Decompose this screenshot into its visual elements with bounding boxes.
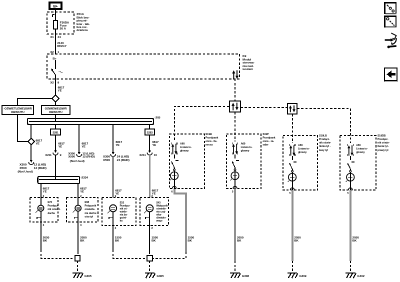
connector X211 pin 10: [147, 150, 152, 197]
wire crossref box2 to bus: [55, 115, 57, 122]
splice square mid cluster: [147, 256, 152, 261]
dashed wire to ground G402: [349, 261, 351, 272]
splice box S281: [51, 129, 61, 135]
svg-text:Przedpank: Przedpank: [263, 136, 276, 140]
svg-text:oświetle-: oświetle-: [85, 207, 96, 211]
svg-text:G305: G305: [157, 274, 165, 278]
pins X2 / 1: [50, 50, 59, 54]
svg-text:Listwa to-: Listwa to-: [356, 146, 368, 150]
ground G308: [230, 273, 249, 278]
label 6817 YE tap C: [82, 141, 89, 148]
svg-text:nik oświet-: nik oświet-: [48, 207, 61, 211]
wire 2050 BK left: [40, 222, 42, 250]
svg-text:Listwa to-: Listwa to-: [241, 145, 253, 149]
label 6817 YE bus2 left: [43, 186, 50, 193]
label E08: [85, 200, 97, 218]
connector bump S19B exit: [172, 186, 176, 188]
label A60 inside S19P: [241, 141, 253, 152]
label A60 inside S19B: [180, 141, 192, 152]
module S19LB dashed box: [283, 136, 318, 191]
ground G305 mid: [145, 273, 164, 278]
label 6817 YE above S43: [152, 189, 159, 196]
svg-text:ośna - tle-: ośna - tle-: [206, 139, 218, 143]
svg-text:YE: YE: [152, 143, 156, 147]
svg-text:E08: E08: [85, 200, 90, 204]
svg-text:YE: YE: [43, 189, 47, 193]
svg-text:Listwa to-: Listwa to-: [298, 146, 310, 150]
wire branch to left crossref: [18, 98, 53, 105]
svg-text:G308: G308: [242, 274, 250, 278]
bus tap wire B (main feed down): [55, 125, 57, 151]
module S19DB internals: [346, 144, 355, 190]
wire 1550 BK from E52: [112, 226, 114, 251]
connector X300 X500 tap C (not used): [77, 152, 82, 157]
label 6817 YE bus2 right: [80, 186, 87, 193]
svg-text:B+: B+: [53, 5, 58, 9]
bus tap wire D: [112, 125, 114, 152]
pins X2 / 9: [50, 80, 59, 84]
ground G309: [287, 273, 306, 278]
fuse block X51A dashed box: [47, 12, 74, 34]
dashed wire C1 to module S19P: [234, 112, 236, 142]
svg-text:-205: -205: [155, 116, 161, 120]
label X51A Blok bezpiecznikow: [77, 12, 91, 32]
svg-text:YE: YE: [116, 143, 120, 147]
svg-text:prawy tyl: prawy tyl: [378, 148, 389, 152]
svg-text:A60: A60: [241, 141, 246, 145]
fuse F30DA: [54, 21, 58, 55]
svg-text:nessa: nessa: [206, 144, 214, 147]
wire 2050 BK from S19LB: [291, 190, 293, 261]
label S19B: [206, 132, 219, 147]
svg-text:-2334: -2334: [81, 175, 89, 179]
svg-text:S19DB: S19DB: [378, 133, 386, 137]
svg-text:ośna - za-: ośna - za-: [263, 139, 275, 143]
label A60 inside S19DB: [356, 143, 368, 154]
bus2 tap left: [40, 184, 42, 198]
label S43: [156, 201, 168, 222]
svg-text:nia dachu: nia dachu: [85, 211, 97, 215]
wire crossref box1 to diamond: [18, 115, 28, 142]
label K9 Modul sterowania nadwoziem: [242, 54, 255, 71]
svg-text:20 A: 20 A: [60, 27, 67, 31]
svg-text:Przełącz-: Przełącz-: [48, 204, 59, 208]
crossref box left (interior lighting): [2, 106, 34, 115]
svg-text:OBW/UTU: OBW/UTU: [49, 110, 62, 114]
module S19B internals: [170, 143, 179, 189]
label 6817 YE tap A: [36, 138, 43, 145]
pins X1 / 44: [50, 35, 61, 39]
svg-text:S19P: S19P: [263, 132, 269, 136]
ground G402: [346, 273, 365, 278]
svg-text:44: 44: [58, 35, 62, 39]
svg-text:S19B: S19B: [206, 132, 212, 136]
connector bump S19LB exit: [290, 188, 294, 190]
svg-text:nik oświe-: nik oświe-: [319, 141, 331, 145]
dashed wire C2 to module M3: [291, 114, 293, 143]
svg-text:X1: X1: [50, 35, 54, 39]
svg-text:Przełącz-: Przełącz-: [378, 137, 389, 141]
bus tap wire A (to diamond): [30, 125, 32, 139]
wire 1550 BK from S19B module: [174, 189, 186, 253]
lamp S43 bulb: [144, 205, 153, 226]
label 6817 YE: [58, 85, 65, 92]
splice square left cluster: [75, 256, 80, 261]
wire 2050 BK right: [77, 222, 79, 252]
icon hotlink 1: [385, 3, 397, 15]
lamp E52 bulb: [108, 205, 117, 226]
label E52: [120, 201, 131, 222]
bus2 tap right: [77, 184, 79, 198]
BCM driver switch: [51, 69, 63, 79]
pin tick inside fuse block: [52, 15, 54, 17]
svg-text:YE: YE: [80, 189, 84, 193]
svg-text:wego: wego: [156, 219, 163, 222]
crossref box right (interior lighting): [42, 106, 71, 115]
svg-text:ośw tyl: ośw tyl: [85, 214, 94, 218]
BCM output dashed wire down: [234, 79, 236, 101]
module S19DB dashed box: [340, 136, 376, 191]
svg-text:RD/GY: RD/GY: [57, 44, 66, 48]
splice box S283: [145, 129, 155, 135]
svg-text:YE: YE: [58, 88, 62, 92]
label S19DB: [378, 133, 390, 151]
svg-text:G309: G309: [299, 274, 307, 278]
svg-text:Przedpank: Przedpank: [206, 136, 219, 140]
svg-text:24 (RHD): 24 (RHD): [117, 158, 130, 162]
svg-text:G305: G305: [84, 274, 92, 278]
svg-text:E72: E72: [48, 200, 53, 204]
icon hotlink 2: [385, 16, 397, 28]
module S19P internals: [230, 143, 239, 189]
label A60 inside S19LB: [298, 143, 310, 154]
dashed wire C2 to module M4: [297, 109, 350, 143]
svg-text:Przełącz-: Przełącz-: [319, 137, 330, 141]
lamp E08 bulb: [73, 198, 81, 222]
svg-text:B+: B+: [53, 56, 57, 60]
svg-text:Połącznik: Połącznik: [85, 204, 97, 208]
svg-text:głowny: głowny: [241, 149, 250, 153]
BCM K9 dashed box: [47, 54, 240, 79]
label 6817 YE above E52: [115, 189, 122, 196]
label 6817 YE tap E: [152, 140, 159, 147]
module S19LB internals: [288, 144, 297, 190]
lamp S43 dashed box: [140, 198, 169, 226]
splice diamond tap A: [28, 138, 35, 145]
svg-text:X211: X211: [139, 153, 146, 157]
dashed wire C1 to module S19B: [174, 106, 229, 141]
svg-text:(Not Used): (Not Used): [70, 159, 85, 163]
svg-text:X2: X2: [50, 80, 54, 84]
wire 6817 YE from BCM: [55, 79, 57, 95]
svg-text:dachu: dachu: [48, 211, 56, 215]
svg-text:dzielcza: dzielcza: [77, 28, 88, 32]
svg-text:A60: A60: [356, 143, 361, 147]
svg-text:głowny: głowny: [298, 150, 307, 154]
icon jump arrow: [385, 33, 397, 48]
labels X211 / 9: [45, 153, 62, 157]
svg-text:głowny: głowny: [180, 149, 189, 153]
dashed wire to ground G308: [234, 261, 236, 272]
bus bar X205: [28, 119, 154, 125]
svg-text:tlenia tyl -: tlenia tyl -: [378, 144, 390, 148]
wire 1550 BK from S43: [149, 226, 151, 253]
connector X300 X500 24 tap D: [111, 152, 116, 198]
label F30DA Fuse 20 A: [60, 21, 70, 31]
svg-text:YE: YE: [36, 141, 40, 145]
module S19B dashed box: [169, 134, 204, 189]
svg-text:tlenia tyl -: tlenia tyl -: [319, 144, 331, 148]
svg-text:(Not Used): (Not Used): [18, 169, 33, 173]
bus tap wire C (not used stub): [78, 125, 80, 152]
connector symbol tap A: [29, 160, 34, 165]
svg-text:głowny: głowny: [356, 150, 365, 154]
bus tap wire E: [149, 125, 151, 151]
svg-text:10: 10: [154, 153, 158, 157]
svg-text:YE: YE: [82, 144, 86, 148]
wire diamond to connector X300 (not used): [30, 145, 32, 160]
splice diamond on wire 6817: [52, 95, 59, 102]
lamp E72 bulb: [35, 198, 43, 222]
module S19P dashed box: [226, 134, 261, 189]
svg-text:A60: A60: [180, 141, 185, 145]
svg-text:12 (RHD): 12 (RHD): [34, 166, 47, 170]
label 6817 YE tap B: [58, 141, 65, 148]
svg-text:X211: X211: [45, 153, 52, 157]
dashed wire to ground G309: [291, 261, 293, 272]
wire 2050 BK from S19DB: [349, 190, 351, 261]
svg-text:lewy tyl: lewy tyl: [319, 148, 328, 152]
svg-text:saler: saler: [263, 143, 269, 147]
label S19P: [263, 132, 276, 147]
wire label 2140 RD/GY: [57, 41, 66, 48]
lamp E72 dashed box: [30, 198, 58, 223]
battery positive voltage box B+: [50, 3, 62, 10]
labels X300 X500 12 LHD 12 RHD Not Used: [18, 163, 47, 174]
svg-text:S281: S281: [53, 131, 59, 135]
svg-text:X500: X500: [103, 158, 110, 162]
lamp E52 dashed box: [102, 198, 136, 226]
connector bump S19DB exit: [348, 188, 352, 190]
lamp E08 dashed box: [67, 198, 99, 223]
bus bar 2334: [38, 177, 80, 184]
wire 2050 BK from S19P: [234, 189, 236, 262]
label E72: [48, 200, 61, 215]
dashed wire C1 to C2: [241, 107, 288, 109]
wire inside BCM: [55, 60, 57, 69]
svg-text:Listwa to-: Listwa to-: [180, 145, 192, 149]
connector bump S19P exit: [233, 186, 237, 188]
label 6817 YE tap D: [116, 140, 123, 147]
inline connector box C1: [229, 101, 240, 112]
svg-text:A60: A60: [298, 143, 303, 147]
icon back arrow box: [385, 68, 398, 81]
svg-text:OBW/UTU: OBW/UTU: [11, 110, 24, 114]
wire diamond to crossref box2: [55, 102, 57, 106]
svg-text:woziem: woziem: [242, 67, 254, 71]
ground G305 left: [73, 273, 92, 278]
wire B+ to fuse block: [55, 9, 57, 21]
svg-text:S283: S283: [147, 131, 153, 135]
BCM internal connector arrows: [232, 70, 239, 79]
svg-text:S19LB: S19LB: [319, 133, 327, 137]
dashed junction to splice square left cluster: [41, 250, 78, 272]
svg-text:nik oświe-: nik oświe-: [378, 141, 390, 145]
label S19LB: [319, 133, 331, 151]
dashed junction to splice square mid cluster: [113, 250, 186, 272]
svg-text:YE: YE: [58, 144, 62, 148]
inline connector box C2: [288, 104, 298, 114]
svg-text:G402: G402: [357, 274, 365, 278]
connector X211 pin 9: [53, 150, 58, 179]
